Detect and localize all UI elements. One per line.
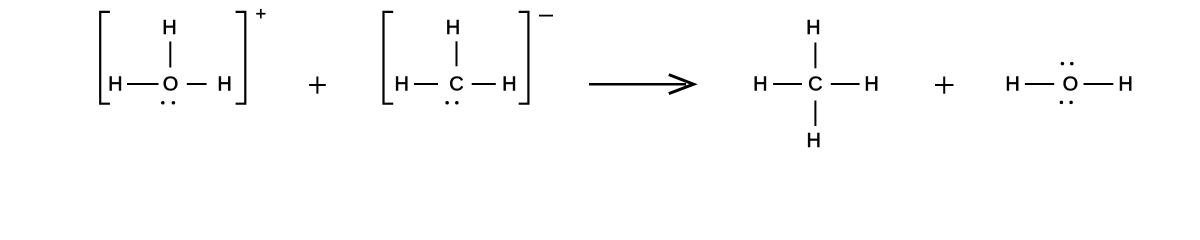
svg-text:O: O [163,74,179,96]
lone pair dots below O [1060,101,1064,105]
svg-text:H: H [217,74,231,96]
reaction arrow head [669,75,694,94]
left bracket of methanide ion [384,12,394,104]
svg-text:H: H [864,74,878,96]
bond H-C vertical top [814,43,816,69]
right bracket of methanide ion [519,12,529,104]
bond O-H right [1084,83,1114,85]
lone pair dots below O [161,101,165,105]
svg-text:H: H [446,17,460,39]
bond H-C vertical [456,41,458,66]
bond H-O vertical [169,42,171,68]
plus sign between reactants [309,77,326,94]
bond H-C left [773,83,802,85]
svg-text:H: H [1118,74,1132,96]
bond H-O left [1025,83,1054,85]
svg-text:C: C [449,74,463,96]
svg-text:H: H [806,130,820,152]
bond H-C left [414,83,438,85]
svg-text:H: H [502,74,516,96]
svg-text:H: H [394,74,408,96]
svg-text:O: O [1063,74,1079,96]
lone pair dots above O [1061,62,1065,66]
svg-text:H: H [753,74,767,96]
plus sign between products [935,77,954,94]
bond C-H right [831,83,860,85]
left bracket of hydronium ion [100,12,110,104]
svg-text:C: C [808,74,822,96]
bond O-H right [187,83,207,85]
svg-text:H: H [108,74,122,96]
bond H-O left [127,83,159,85]
lone pair dots below C [445,101,449,105]
bond C-H right [472,83,496,85]
bond C-H vertical bottom [814,101,816,127]
svg-text:H: H [1005,74,1019,96]
svg-text:H: H [162,17,176,39]
reaction arrow shaft [589,83,686,86]
right bracket of hydronium ion [236,12,246,104]
svg-text:H: H [806,17,820,39]
superscript plus charge [256,9,265,19]
superscript minus charge [539,15,553,17]
